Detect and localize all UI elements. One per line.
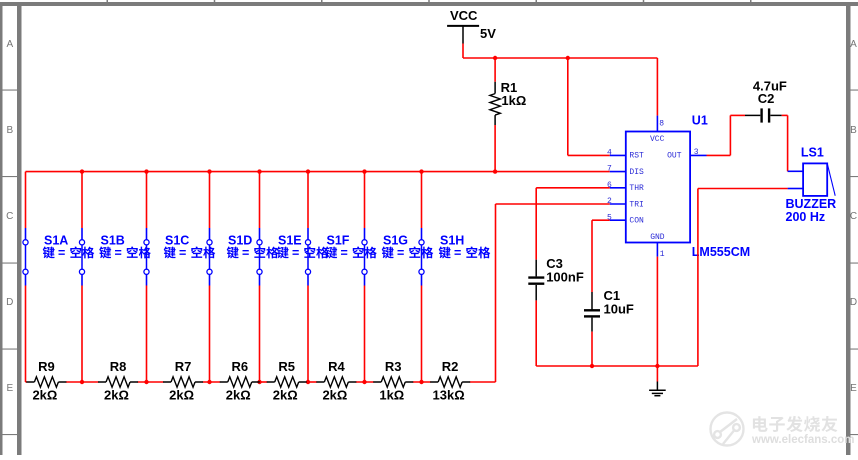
wire top bus down to switch S1C [146,172,148,228]
node switch column S1G on top bus [362,169,366,173]
svg-text:BUZZER: BUZZER [786,197,837,211]
pin 4 stub [607,149,626,158]
resistor R2 13kΩ [430,359,470,403]
svg-text:4: 4 [607,149,612,158]
node ladder junction 1 [80,380,84,384]
wire top bus down to switch S1B [81,172,83,228]
pin 3 stub OUT [690,148,706,157]
node ladder junction 5 [306,380,310,384]
node top rail / RST branch [566,56,570,60]
wire top bus down to switch S1A [25,172,27,228]
node C1 / ground rail [590,364,594,368]
svg-text:E: E [850,383,857,394]
svg-text:=: = [292,246,299,260]
svg-text:2: 2 [607,197,612,206]
svg-text:=: = [242,246,249,260]
svg-text:6: 6 [607,181,612,190]
svg-text:R5: R5 [278,359,295,374]
wire VCC to top rail [462,44,464,59]
svg-text:R4: R4 [328,359,345,374]
resistor R3 1kΩ [373,359,413,403]
wire switch S1A down to resistor rail [25,286,27,383]
wire THR horizontal [536,187,610,189]
svg-text:LS1: LS1 [801,145,824,159]
switch S1F [305,228,310,286]
wire top bus down to switch S1E [259,172,261,228]
wire ground rail [536,365,698,367]
wire buzzer bottom to ground rail [698,189,788,367]
pin 1 stub GND [657,243,664,260]
wire switch S1B down to resistor rail [81,286,83,383]
svg-text:2kΩ: 2kΩ [104,388,129,403]
resistor R9 2kΩ [26,359,66,403]
label key = space for S1D [227,246,279,260]
node ladder junction 3 [207,380,211,384]
wire THR down to C3 [535,188,537,260]
svg-text:D: D [6,297,13,308]
wire switch S1C down to resistor rail [146,286,148,383]
node switch column S1E on top bus [257,169,261,173]
svg-text:B: B [850,125,857,136]
svg-text:1kΩ: 1kΩ [379,388,404,403]
svg-text:VCC: VCC [450,8,478,23]
svg-text:R9: R9 [38,359,55,374]
resistor R4 2kΩ [316,359,356,403]
watermark text 电子发烧友 www.elecfans.com [751,416,854,446]
wire top rail to R1 [494,58,496,82]
svg-text:TRI: TRI [629,200,643,209]
pin 5 stub [607,213,626,222]
wire top bus down to switch S1H [421,172,423,228]
switch S1A [23,228,28,286]
svg-text:A: A [6,39,13,50]
svg-text:1kΩ: 1kΩ [501,93,526,108]
switch S1B [79,228,84,286]
wire DIS rail (switch top bus) [26,171,610,173]
switch S1E [257,228,262,286]
svg-text:R3: R3 [385,359,402,374]
svg-text:=: = [454,246,461,260]
node switch column S1H on top bus [419,169,423,173]
buzzer LS1 [788,163,836,196]
wire switch S1G down to resistor rail [364,286,366,383]
wire switch S1D down to resistor rail [209,286,211,383]
svg-text:2kΩ: 2kΩ [273,388,298,403]
label key = space for S1F [325,246,377,260]
wire switch S1F down to resistor rail [307,286,309,383]
svg-text:=: = [115,246,122,260]
svg-text:LM555CM: LM555CM [692,245,750,259]
pin 6 stub [607,181,626,190]
svg-text:U1: U1 [692,113,708,127]
node switch column S1D on top bus [207,169,211,173]
svg-text:C2: C2 [758,91,775,106]
node R1 / DIS junction [493,169,497,173]
label key = space for S1E [277,246,329,260]
label key = space for S1C [164,246,216,260]
svg-text:5: 5 [607,213,612,222]
label key = space for S1A [43,246,95,260]
svg-text:R7: R7 [175,359,192,374]
wire ground stub [656,366,658,382]
label key = space for S1G [382,246,434,260]
capacitor C2 4.7uF [745,79,787,123]
svg-text:10uF: 10uF [604,301,634,316]
resistor R7 2kΩ [163,359,203,403]
wire CON horizontal [592,219,610,221]
wire resistor ladder rail [26,381,496,383]
node ladder junction 6 [362,380,366,384]
wire top bus down to switch S1F [307,172,309,228]
node ladder junction 2 [144,380,148,384]
wire C1 to ground rail [591,332,593,366]
capacitor C1 10uF [584,288,634,332]
switch S1H [419,228,424,286]
op-amp U1 LM555CM body [626,132,690,243]
svg-text:=: = [341,246,348,260]
power VCC symbol [447,8,496,44]
svg-text:CON: CON [629,217,644,226]
wire C2 to buzzer top [782,115,788,171]
node ladder junction 7 [419,380,423,384]
node switch column S1C on top bus [144,169,148,173]
wire TRI horizontal [496,203,610,205]
svg-text:GND: GND [650,233,665,242]
svg-text:100nF: 100nF [546,269,584,284]
wire top bus down to switch S1D [209,172,211,228]
svg-text:www.elecfans.com: www.elecfans.com [751,434,854,446]
wire R1 to DIS rail [494,125,496,172]
capacitor C3 100nF [528,256,584,301]
wire CON down to C1 [591,220,593,292]
wire OUT to C2 [707,115,746,155]
wire ladder to TRI riser [495,204,497,382]
svg-text:200 Hz: 200 Hz [786,210,826,224]
wire C3 to ground rail [535,300,537,366]
svg-text:OUT: OUT [667,152,682,161]
resistor R6 2kΩ [220,359,260,403]
pin 2 stub [607,197,626,206]
label BUZZER 200 Hz [786,197,837,224]
wire top bus down to switch S1G [364,172,366,228]
svg-text:2kΩ: 2kΩ [32,388,57,403]
wire RST branch horizontal [568,154,610,156]
svg-text:E: E [6,383,13,394]
node GND pin / ground rail [655,364,659,368]
svg-text:THR: THR [629,184,644,193]
svg-text:7: 7 [607,165,612,174]
pin 7 stub [607,165,626,174]
wire top power rail [463,57,657,59]
svg-text:DIS: DIS [629,168,644,177]
svg-text:=: = [179,246,186,260]
svg-text:2kΩ: 2kΩ [169,388,194,403]
pin 8 stub VCC [657,116,664,132]
svg-text:13kΩ: 13kΩ [433,388,465,403]
wire RST branch vertical [567,58,569,155]
svg-text:=: = [397,246,404,260]
svg-text:3: 3 [694,148,699,157]
wire switch S1E down to resistor rail [259,286,261,383]
ground [649,382,666,396]
svg-text:R6: R6 [231,359,248,374]
switch S1D [207,228,212,286]
svg-text:R8: R8 [110,359,127,374]
watermark logo elecfans [711,413,744,446]
resistor R1 1kOhm [490,80,526,125]
resistor R8 2kΩ [98,359,138,403]
resistor R5 2kΩ [267,359,307,403]
node switch column S1F on top bus [306,169,310,173]
svg-text:2kΩ: 2kΩ [322,388,347,403]
node top rail / R1 [493,56,497,60]
node switch column S1B on top bus [80,169,84,173]
svg-text:2kΩ: 2kΩ [226,388,251,403]
svg-text:C: C [6,211,13,222]
svg-text:R2: R2 [442,359,459,374]
wire pin1 to ground rail [656,257,658,366]
svg-text:=: = [58,246,65,260]
svg-text:C: C [850,211,857,222]
svg-text:1: 1 [660,250,665,259]
svg-text:B: B [6,125,13,136]
switch S1G [362,228,367,286]
svg-text:VCC: VCC [650,135,665,144]
label key = space for S1H [439,246,491,260]
svg-text:D: D [850,297,857,308]
wire switch S1H down to resistor rail [421,286,423,383]
svg-text:A: A [850,39,857,50]
svg-text:RST: RST [629,152,644,161]
svg-text:8: 8 [659,119,664,128]
wire top rail to pin 8 [656,58,658,116]
switch S1C [144,228,149,286]
label key = space for S1B [99,246,151,260]
svg-text:5V: 5V [480,26,496,41]
node ladder junction 4 [257,380,261,384]
